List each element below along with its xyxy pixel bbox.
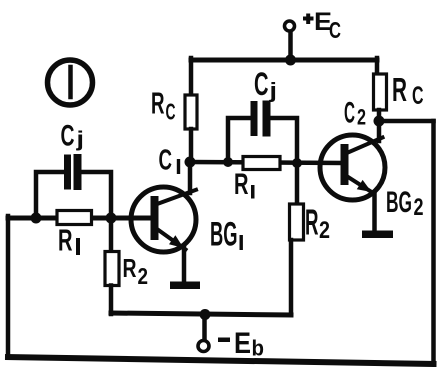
label R1b (234, 168, 255, 201)
terminal -Eb (198, 315, 209, 352)
junction: +Ec on top rail (285, 55, 296, 66)
label RC2 (392, 71, 424, 110)
wire: right edge vertical (431, 121, 436, 364)
label -Eb (218, 327, 264, 361)
capacitor Cj1 (36, 158, 111, 218)
label Cj2 (254, 66, 277, 103)
ground (BG2 emitter) (362, 231, 393, 239)
label BG1 (210, 216, 243, 254)
svg-text:R: R (305, 202, 319, 243)
label +Ec (303, 8, 341, 43)
svg-text:j: j (75, 128, 84, 151)
label C2 (344, 97, 366, 130)
svg-text:C: C (166, 99, 176, 125)
resistor RC2 (374, 74, 387, 110)
junction: Cj1 right leg / R2a on base row (106, 213, 117, 224)
ground (BG1 emitter) (170, 282, 200, 290)
label Cj1 (61, 120, 85, 153)
wire: -Eb row (111, 313, 291, 315)
capacitor Cj2 (228, 105, 297, 164)
wire: input base row (8, 216, 153, 221)
resistor R2b with leads (290, 163, 304, 314)
node C2 (374, 116, 385, 127)
transistor BG2 (320, 121, 385, 231)
label C1 (159, 145, 181, 177)
svg-text:C: C (254, 66, 269, 102)
svg-text:C: C (159, 145, 173, 177)
wire: RC1 to node C1 (189, 129, 194, 162)
svg-text:C: C (344, 97, 355, 130)
figure number badge (circled 1) (48, 60, 93, 105)
resistor R1a (57, 211, 92, 225)
svg-text:2: 2 (357, 105, 366, 130)
svg-text:C: C (412, 82, 424, 110)
svg-text:R: R (151, 86, 165, 121)
terminal +Ec (285, 21, 295, 58)
resistor R1b (243, 157, 280, 170)
wire: node C2 to right edge (feedback) (379, 119, 434, 124)
label RC1 (151, 86, 176, 125)
wire: bottom feedback return (8, 357, 434, 364)
svg-text:b: b (252, 336, 265, 361)
label BG2 (386, 186, 424, 221)
svg-text:C: C (329, 17, 341, 43)
svg-text:2: 2 (138, 263, 149, 289)
svg-text:BG: BG (386, 186, 412, 219)
svg-text:2: 2 (319, 217, 330, 244)
junction: Cj2 left leg on mid row (223, 157, 233, 167)
wire: rail to RC2 (375, 58, 380, 75)
transistor BG1 (131, 162, 196, 283)
svg-text:E: E (234, 327, 251, 360)
wire: left edge vertical (6, 216, 11, 357)
svg-text:C: C (61, 120, 75, 153)
junction: Cj1 left leg on base row (31, 213, 42, 224)
svg-text:j: j (268, 80, 277, 103)
label R2a (123, 253, 149, 289)
wire: mid row C1 to BG2 base (190, 162, 342, 163)
wire: rail to RC1 (189, 58, 194, 96)
junction: Cj2 right leg / R2b on mid row (292, 158, 302, 168)
wire: RC2 to node C2 (377, 110, 382, 121)
resistor RC1 (185, 95, 197, 129)
svg-text:R: R (392, 71, 407, 108)
node C1 (185, 157, 196, 168)
label R1a (58, 223, 80, 258)
resistor R2a with leads (105, 221, 119, 314)
svg-text:R: R (58, 223, 73, 258)
svg-text:R: R (234, 168, 249, 201)
svg-text:BG: BG (210, 216, 238, 254)
wire top supply rail (191, 58, 377, 63)
svg-text:2: 2 (414, 194, 424, 221)
svg-text:R: R (123, 253, 137, 283)
junction: -Eb tap (200, 309, 211, 320)
label R2b (305, 202, 330, 245)
